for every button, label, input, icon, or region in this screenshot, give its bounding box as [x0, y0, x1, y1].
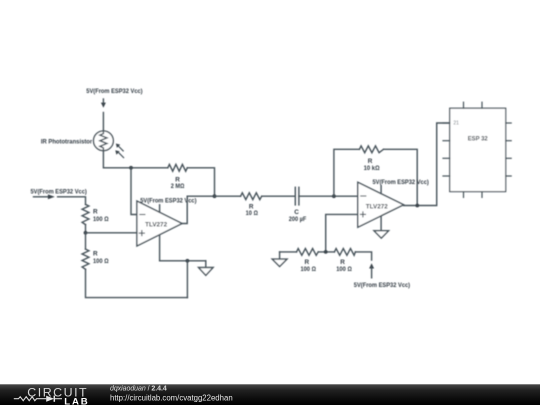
wire R2 bottom to divider node: [85, 225, 87, 233]
light arrow 2: [115, 150, 123, 157]
ground GND3 triangle: [272, 259, 287, 266]
ESP32 right pins: [506, 123, 512, 176]
svg-text:100 Ω: 100 Ω: [93, 258, 109, 265]
U1 plus sign: [139, 231, 144, 236]
IR Phototransistor PR1 (circle with zigzag): [94, 131, 114, 151]
ESP32 top pins: [464, 102, 483, 108]
node dot U1 vminus/gnd: [186, 259, 190, 263]
node dot A (inverting input branch): [129, 166, 133, 170]
footer bar: [0, 384, 540, 405]
node dot B (U1 output): [213, 194, 217, 198]
supply arrow V1 (down): [101, 99, 106, 108]
svg-text:http://circuitlab.com/cvatgg22: http://circuitlab.com/cvatgg22edhan: [110, 393, 233, 402]
svg-text:100 Ω: 100 Ω: [93, 216, 109, 223]
resistor R1 2MOhm zigzag: [168, 164, 188, 171]
ESP32 left pins: [443, 123, 450, 176]
wire R7 right corner down: [355, 252, 371, 260]
ground GND1 triangle: [199, 268, 214, 276]
wire feedback up from node C: [334, 149, 360, 196]
op-amp U2 TLV272 triangle: [358, 182, 404, 227]
supply arrow V3 (up): [369, 263, 374, 278]
svg-text:R: R: [93, 251, 98, 258]
ESP32 bottom pins: [464, 192, 483, 198]
wire U2 plus input: [326, 214, 358, 252]
wire R4 to C1: [262, 195, 296, 197]
wire R3 bottom to bottom rail: [86, 269, 188, 297]
U1 minus sign: [140, 214, 145, 216]
wire V2 to R2 top: [58, 197, 86, 205]
U1 V+ supply pin: [159, 205, 161, 213]
U2 V- pin: [380, 216, 382, 231]
svg-text:5V(From ESP32 Vcc): 5V(From ESP32 Vcc): [31, 189, 87, 196]
op-amp U1 TLV272 triangle: [137, 201, 182, 246]
wire node B to R4: [215, 195, 241, 197]
ground GND2 triangle: [374, 231, 389, 238]
node dot D (U2 output): [415, 204, 419, 208]
svg-text:R: R: [93, 209, 98, 216]
wire node A down to op-amp U1 inverting input: [131, 168, 137, 215]
svg-text:100 Ω: 100 Ω: [300, 266, 316, 273]
logo resistor zigzag: [14, 397, 46, 401]
svg-text:2 MΩ: 2 MΩ: [171, 183, 185, 190]
svg-text:5V(From ESP32 Vcc): 5V(From ESP32 Vcc): [86, 88, 142, 95]
wire R5 right down to U2 output node: [384, 149, 418, 205]
svg-text:5V(From ESP32 Vcc): 5V(From ESP32 Vcc): [140, 198, 196, 205]
wire down from vminus node to bottom rail: [186, 261, 188, 298]
resistor R2 100 Ohm zigzag: [82, 204, 89, 224]
wire R6 to node E: [318, 251, 334, 253]
resistor R3 100 Ohm zigzag: [82, 249, 89, 269]
ground GND3 stub: [279, 252, 281, 259]
wire R1 right to output node: [187, 168, 214, 196]
svg-text:TLV272: TLV272: [145, 221, 167, 228]
logo diode: [46, 396, 62, 402]
U2 plus sign: [360, 212, 365, 217]
wire V1 to phototransistor top: [102, 113, 104, 132]
resistor R4 10 Ohm zigzag: [241, 193, 262, 200]
light arrow 1: [116, 144, 123, 151]
svg-text:dqxiaoduan / 2.4.4: dqxiaoduan / 2.4.4: [110, 386, 167, 393]
svg-text:TLV272: TLV272: [366, 203, 388, 210]
wire divider node down to R3: [85, 233, 87, 249]
wire C1 to U2 inverting node: [299, 195, 358, 197]
ground GND1 stub: [205, 261, 207, 268]
svg-text:LAB: LAB: [64, 396, 87, 405]
node dot C (U2 inverting): [332, 194, 336, 198]
wire U1 output to feedback node: [182, 196, 215, 223]
wire GND3 to R6: [280, 251, 297, 253]
node dot E (divider mid): [324, 250, 328, 254]
U1 V- pin wire down: [160, 236, 206, 261]
U2 minus sign: [361, 195, 366, 197]
wire divider node to U1 plus input: [86, 232, 137, 234]
svg-text:10 kΩ: 10 kΩ: [364, 165, 380, 172]
svg-text:5V(From ESP32 Vcc): 5V(From ESP32 Vcc): [354, 282, 410, 289]
IC ESP32 box: [450, 108, 506, 191]
resistor R6 100 Ohm zigzag: [297, 249, 319, 256]
svg-text:21: 21: [453, 121, 459, 127]
svg-text:5V(From ESP32 Vcc): 5V(From ESP32 Vcc): [373, 179, 429, 186]
svg-text:IR Phototransistor: IR Phototransistor: [41, 139, 93, 146]
svg-text:ESP 32: ESP 32: [468, 135, 488, 142]
U2 V+ supply pin: [380, 186, 382, 193]
svg-text:200 µF: 200 µF: [289, 216, 307, 223]
svg-text:10 Ω: 10 Ω: [246, 210, 258, 217]
svg-text:100 Ω: 100 Ω: [336, 266, 352, 273]
capacitor C1 plates: [295, 187, 299, 205]
resistor R7 100 Ohm zigzag: [334, 249, 355, 256]
wire U2 output to ESP32: [404, 123, 450, 206]
wire phototransistor bottom to node row: [103, 151, 167, 168]
resistor R5 10k zigzag: [359, 146, 383, 153]
node dot divider left: [84, 231, 88, 235]
supply arrow V2 (right): [34, 194, 55, 199]
svg-text:C: C: [294, 209, 299, 216]
